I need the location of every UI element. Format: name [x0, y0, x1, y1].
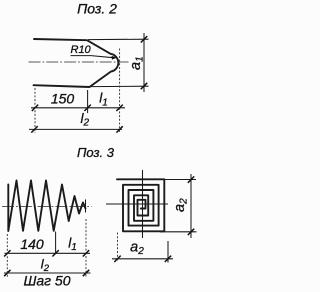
svg-text:Поз. 3: Поз. 3	[77, 145, 115, 160]
svg-text:a2: a2	[172, 198, 190, 212]
svg-text:a2: a2	[130, 240, 144, 258]
svg-text:l1: l1	[99, 91, 108, 109]
svg-text:R10: R10	[71, 44, 92, 56]
svg-text:Поз. 2: Поз. 2	[77, 0, 117, 16]
svg-text:l1: l1	[68, 235, 77, 253]
svg-text:a1: a1	[128, 56, 146, 70]
svg-text:l2: l2	[81, 111, 90, 129]
svg-text:l2: l2	[41, 256, 50, 274]
svg-text:Шаг 50: Шаг 50	[23, 273, 70, 289]
svg-text:150: 150	[51, 90, 75, 106]
svg-text:140: 140	[20, 236, 44, 252]
